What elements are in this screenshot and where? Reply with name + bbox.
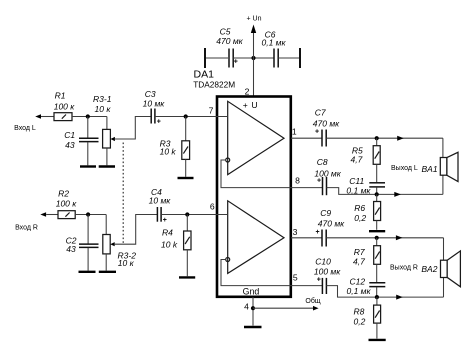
svg-text:10 k: 10 k	[160, 147, 177, 157]
capacitor C11	[346, 176, 385, 196]
svg-text:100 мк: 100 мк	[314, 169, 341, 179]
resistor R6	[354, 194, 380, 229]
svg-text:1: 1	[292, 127, 297, 137]
svg-text:+: +	[316, 229, 320, 236]
svg-text:4,7: 4,7	[353, 257, 365, 267]
wire wiper R3-1	[115, 117, 151, 140]
svg-text:+: +	[315, 129, 319, 136]
svg-text:Вход R: Вход R	[15, 225, 38, 232]
supply right terminal bar	[299, 48, 301, 68]
loudspeaker BA2	[390, 238, 460, 297]
svg-text:BA2: BA2	[421, 264, 437, 274]
capacitor C5	[216, 27, 243, 68]
wire to BA2 bottom	[326, 286, 443, 298]
resistor R5	[351, 138, 381, 182]
arrow to BA1 top	[397, 136, 404, 141]
potentiometer R3-2	[103, 215, 136, 271]
node pin4 junction	[251, 306, 255, 310]
svg-text:7: 7	[209, 106, 214, 116]
wire	[278, 57, 300, 59]
svg-text:+: +	[163, 217, 167, 224]
capacitor C10	[314, 257, 341, 294]
ground	[79, 271, 96, 273]
svg-text:0,1 мк: 0,1 мк	[261, 38, 286, 48]
dashed gang coupling line	[122, 143, 124, 244]
svg-text:4: 4	[244, 302, 249, 312]
node output L junction	[375, 136, 379, 140]
node R input junction	[86, 212, 90, 216]
wire pin2	[253, 58, 255, 96]
svg-text:0,2: 0,2	[354, 213, 366, 223]
svg-text:0,1 мк: 0,1 мк	[347, 286, 372, 296]
node C4 R4 junction	[185, 212, 189, 216]
svg-text:R4: R4	[162, 227, 173, 237]
svg-text:C5: C5	[220, 27, 231, 37]
svg-text:BA1: BA1	[422, 164, 438, 174]
resistor R1	[54, 91, 76, 121]
svg-text:6: 6	[210, 202, 215, 212]
wire pin 4	[252, 297, 254, 326]
Общ common output arrow	[253, 297, 321, 311]
svg-text:100 мк: 100 мк	[314, 267, 341, 277]
node supply junction	[251, 56, 255, 60]
svg-text:10 мк: 10 мк	[149, 196, 172, 206]
ground	[178, 177, 194, 179]
wire pin 8	[291, 187, 323, 189]
node C3 R3 junction	[184, 114, 188, 118]
svg-text:+: +	[234, 59, 238, 66]
svg-text:5: 5	[293, 273, 298, 283]
svg-text:470 мк: 470 мк	[318, 218, 345, 228]
svg-text:43: 43	[65, 140, 75, 150]
svg-text:Вход L: Вход L	[14, 125, 36, 132]
svg-text:Gnd: Gnd	[243, 286, 260, 296]
wire	[206, 57, 228, 59]
svg-text:10 к: 10 к	[95, 104, 112, 114]
svg-text:4,7: 4,7	[351, 154, 363, 164]
op-amp IC DA1 TDA2822M body	[193, 69, 291, 297]
svg-text:3: 3	[293, 227, 298, 237]
capacitor C8	[314, 157, 341, 195]
arrow to BA2 bottom	[396, 295, 403, 300]
capacitor C9	[316, 208, 346, 246]
svg-text:+: +	[317, 276, 321, 283]
wire wiper R3-2	[115, 215, 158, 245]
node BA2 bottom junction	[375, 295, 379, 299]
ground	[244, 326, 262, 328]
svg-text:C11: C11	[349, 176, 364, 186]
node output R junction	[375, 236, 379, 240]
potentiometer R3-1	[93, 94, 115, 165]
wire	[326, 137, 443, 139]
svg-text:R8: R8	[354, 307, 365, 317]
Вход R input arrow	[15, 212, 58, 232]
svg-text:Общ: Общ	[305, 297, 320, 305]
svg-text:2: 2	[245, 87, 250, 97]
svg-text:10 к: 10 к	[118, 258, 135, 268]
arrow to BA2 top	[396, 235, 403, 240]
node L input junction	[86, 114, 90, 118]
svg-text:Выход R: Выход R	[390, 265, 418, 272]
svg-text:C8: C8	[317, 157, 328, 167]
svg-text:+: +	[157, 118, 161, 125]
wire to BA1 bottom	[327, 188, 443, 195]
node BA1 bottom junction	[375, 192, 379, 196]
ground	[80, 165, 96, 167]
ground	[179, 276, 195, 278]
svg-text:+ Un: + Un	[247, 16, 262, 23]
svg-text:R6: R6	[354, 203, 365, 213]
capacitor C6	[261, 30, 286, 68]
svg-text:470 мк: 470 мк	[216, 36, 243, 46]
loudspeaker BA1	[391, 138, 458, 194]
svg-text:R3-1: R3-1	[93, 94, 112, 104]
svg-text:470 мк: 470 мк	[313, 119, 340, 129]
svg-text:10 k: 10 k	[161, 240, 178, 250]
Вход L input arrow	[14, 114, 54, 132]
svg-text:43: 43	[66, 244, 76, 254]
svg-text:C10: C10	[315, 257, 331, 267]
svg-text:C7: C7	[315, 108, 326, 118]
resistor R7	[353, 238, 381, 283]
resistor R2	[56, 189, 78, 219]
capacitor C7	[313, 108, 340, 147]
supply left terminal bar	[204, 48, 206, 68]
capacitor C12	[347, 276, 386, 297]
svg-text:8: 8	[295, 176, 300, 186]
svg-text:R1: R1	[55, 91, 66, 101]
capacitor C1	[64, 117, 98, 166]
ground	[99, 165, 115, 167]
svg-text:10 мк: 10 мк	[143, 98, 166, 108]
wire pin 7	[155, 116, 228, 118]
wire pin 5	[291, 285, 322, 287]
wire	[233, 57, 273, 59]
wire	[72, 116, 107, 118]
svg-text:+ U: + U	[243, 100, 258, 110]
svg-text:0,2: 0,2	[354, 316, 366, 326]
arrow to BA1 bottom	[394, 192, 401, 197]
wire	[326, 237, 443, 239]
ground	[369, 230, 385, 232]
svg-text:+: +	[317, 178, 321, 185]
svg-text:TDA2822M: TDA2822M	[193, 79, 235, 89]
capacitor C4	[149, 187, 172, 224]
svg-text:C12: C12	[350, 276, 366, 286]
op-amp A triangle	[226, 101, 284, 174]
resistor R4	[161, 215, 191, 277]
wire feedback B to pin 5	[221, 260, 291, 286]
op-amp B triangle	[226, 201, 284, 274]
wire pin 3	[291, 237, 322, 239]
ground	[369, 339, 386, 341]
capacitor C2	[66, 215, 99, 271]
svg-text:R2: R2	[58, 189, 69, 199]
wire pin 6	[161, 214, 228, 216]
svg-text:100 к: 100 к	[56, 199, 78, 209]
resistor R8	[354, 297, 381, 338]
svg-text:C1: C1	[64, 130, 75, 140]
+Un supply arrow	[247, 16, 262, 59]
wire pin 1	[291, 137, 322, 139]
ground	[99, 271, 116, 273]
resistor R3	[160, 117, 190, 177]
capacitor C3	[143, 89, 166, 125]
svg-text:100 к: 100 к	[54, 102, 76, 112]
svg-text:Выход L: Выход L	[391, 165, 418, 172]
wire	[75, 214, 106, 216]
wire feedback A to pin 8	[221, 160, 291, 188]
svg-text:C9: C9	[320, 208, 331, 218]
